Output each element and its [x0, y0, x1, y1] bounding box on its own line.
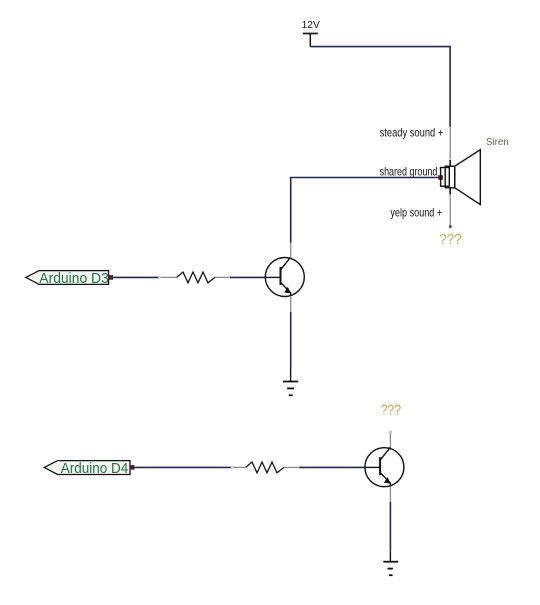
resistor R2 left pin — [232, 466, 246, 468]
wire R2 to Q2 base — [299, 466, 365, 468]
pin end mark Q2 collector — [389, 431, 391, 433]
svg-text:Arduino D4: Arduino D4 — [61, 460, 129, 477]
siren steady pin black stub — [449, 160, 451, 166]
pin end marks R1 — [158, 276, 160, 278]
svg-text:Arduino D3: Arduino D3 — [39, 270, 109, 287]
wire Q2 emitter to ground — [389, 502, 391, 551]
svg-text:???: ??? — [439, 231, 461, 248]
pin end marks R2 — [231, 466, 233, 468]
transistor Q2 emitter pin — [389, 486, 391, 502]
transistor Q2 — [365, 447, 404, 486]
siren pin steady sound + — [449, 127, 451, 160]
transistor Q1 collector pin — [290, 243, 292, 258]
siren pin yelp sound + — [449, 194, 451, 227]
pin dot at Arduino D4 flag — [130, 465, 135, 470]
ground symbol 1 — [283, 368, 298, 395]
transistor Q1 — [265, 257, 304, 296]
wire Q1 emitter to ground — [290, 312, 292, 368]
wire shared ground from siren to Q1 collector — [291, 178, 441, 243]
svg-text:shared ground: shared ground — [380, 165, 438, 179]
transistor Q2 collector pin — [389, 432, 391, 449]
wire Arduino D3 to R1 — [111, 276, 160, 278]
net flag Arduino D3 — [26, 270, 109, 287]
svg-text:12V: 12V — [302, 19, 320, 31]
wire R1 to Q1 base — [230, 276, 265, 278]
resistor R1 right pin — [215, 276, 230, 278]
resistor R2 right pin — [284, 466, 300, 468]
resistor R1 zigzag — [177, 272, 215, 283]
siren yelp pin black stub — [449, 188, 451, 194]
power rail 12V symbol — [303, 34, 318, 47]
resistor R1 left pin — [160, 276, 177, 278]
transistor Q1 emitter pin — [290, 296, 292, 312]
svg-text:Siren: Siren — [486, 136, 509, 148]
wire Arduino D4 to R2 — [133, 466, 233, 468]
wire 12V rail to siren steady pin — [310, 47, 450, 127]
svg-text:steady sound +: steady sound + — [380, 126, 444, 140]
siren LS1 driver front rectangle — [445, 166, 455, 188]
svg-text:???: ??? — [381, 401, 402, 418]
siren LS1 driver rear rectangle — [441, 168, 450, 187]
ground symbol 2 — [383, 550, 398, 575]
siren pin yelp end mark — [449, 225, 452, 228]
net flag Arduino D4 — [44, 460, 130, 477]
pin dot at Arduino D3 flag — [108, 275, 113, 280]
junction dot at siren shared ground pin — [438, 175, 443, 180]
siren LS1 cone — [455, 150, 481, 205]
resistor R2 zigzag — [246, 462, 284, 473]
svg-text:yelp sound +: yelp sound + — [390, 205, 442, 219]
